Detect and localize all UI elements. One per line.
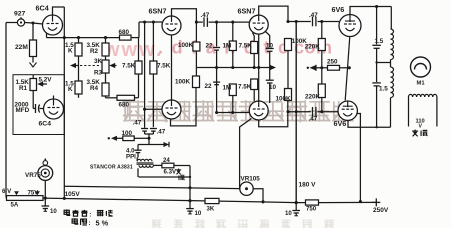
tube 6SN7 (second, lower triode) — [249, 101, 268, 120]
resistor R4 3.5K — [102, 73, 109, 98]
tube 6V6 (bottom) — [338, 101, 357, 120]
svg-text:1.5: 1.5 — [375, 38, 384, 45]
label 1.5K lower — [65, 81, 74, 94]
resistor R2 3.5K — [102, 38, 109, 56]
label 7.5K V3b — [238, 84, 252, 91]
label .47 to 6V6 top — [309, 12, 318, 19]
label 6C4 (V2) — [39, 121, 52, 128]
label 3K R3 — [94, 58, 103, 77]
resistor 100K (V3a plate) — [193, 42, 200, 76]
label 7.5K right — [157, 63, 171, 70]
wire: VR105 to bus2 — [253, 189, 264, 204]
bias network enclosure — [13, 75, 64, 135]
svg-text:www.: www. — [103, 39, 163, 61]
wire: mid row A — [196, 65, 276, 70]
tube 6V6 (top) — [339, 15, 361, 37]
svg-text:10: 10 — [50, 208, 57, 215]
svg-text:MFD: MFD — [16, 107, 30, 114]
label 6V + tap arrow — [2, 188, 19, 195]
label .47 fb left — [133, 120, 142, 127]
capacitor .47 (interstage 1) — [204, 17, 207, 27]
capacitor 1.5 (lower) — [372, 63, 381, 129]
svg-text:V: V — [419, 124, 423, 130]
label 100K lower right — [276, 96, 292, 103]
wire: V3 triodes interconnect — [257, 34, 260, 101]
label 1.5K upper — [65, 42, 74, 55]
svg-text:R2: R2 — [90, 48, 99, 55]
svg-text:220K: 220K — [305, 44, 321, 51]
label 6V6 top — [332, 5, 345, 14]
wire: network top rail — [47, 36, 120, 39]
svg-text:22: 22 — [205, 83, 213, 90]
tube 6SN7 (first, lower triode) — [162, 100, 181, 119]
label capacitors in MFD note — [64, 210, 112, 219]
wire: V3b cathode drop — [240, 119, 252, 189]
resistor 7.5K (V3a cathode) — [251, 33, 258, 68]
label 927 — [14, 11, 26, 18]
watermark: faint bottom ghost row — [152, 220, 334, 229]
svg-text:250: 250 — [327, 59, 338, 66]
svg-text:.47: .47 — [133, 120, 142, 127]
wire: CT tap — [375, 61, 390, 63]
watermark: gray company name row — [123, 101, 353, 122]
svg-text:6 V: 6 V — [2, 188, 12, 195]
label 22 upper — [206, 43, 214, 50]
svg-text:10: 10 — [195, 210, 202, 217]
speaker M1 — [411, 57, 431, 87]
svg-text:750: 750 — [306, 206, 317, 213]
label STANCOR A3831 — [90, 164, 133, 170]
label resistors 5% note — [72, 218, 109, 227]
label VR75 — [25, 172, 41, 179]
svg-text:R4: R4 — [90, 85, 99, 92]
ground (22M) — [30, 59, 37, 67]
transformer T1 STANCOR A3831 — [137, 153, 162, 177]
svg-text:927: 927 — [14, 11, 26, 18]
label 100K V3a plate — [178, 42, 194, 49]
resistor R3 3K (pot) — [102, 56, 117, 73]
label 220K lower — [305, 94, 321, 101]
wire: jack to grid — [6, 21, 43, 24]
capacitor 22 (upper) — [213, 22, 220, 112]
svg-text:7.5K: 7.5K — [239, 43, 253, 50]
svg-text:7.5K: 7.5K — [238, 84, 252, 91]
label 3.5K R2 — [87, 42, 101, 55]
watermark: red website text — [103, 38, 332, 62]
transformer T3 power 110V — [409, 94, 437, 126]
svg-text:.47: .47 — [201, 12, 210, 19]
label 680 lower — [119, 102, 130, 109]
label 6V6 bottom — [334, 119, 347, 128]
svg-text:R3: R3 — [94, 70, 103, 77]
svg-text:10: 10 — [269, 84, 277, 91]
resistor 250 — [328, 65, 350, 70]
svg-text:M1: M1 — [417, 81, 426, 87]
resistor 7.5K (first stage left) — [135, 38, 142, 98]
capacitor 10 (V3b cathode) — [266, 80, 274, 103]
tube 6C4 (V2) — [44, 96, 65, 120]
label 10 V3a — [266, 43, 274, 50]
label 3.5K R4 — [87, 79, 101, 92]
svg-text:PPI: PPI — [126, 154, 136, 161]
svg-text:220K: 220K — [305, 94, 321, 101]
wire: 6SN7b grid — [143, 108, 162, 111]
tube 6SN7 (first, upper triode) — [162, 16, 181, 35]
svg-text:5 %: 5 % — [96, 219, 109, 228]
label 250 — [327, 59, 338, 66]
resistor 100 — [123, 136, 149, 141]
label 75V + tap arrow — [28, 190, 40, 197]
label AC (6.3V) — [176, 169, 185, 181]
label 4.0 PPI — [126, 148, 136, 161]
label 100 — [122, 130, 133, 137]
label 6.3V — [164, 168, 177, 175]
svg-text:100K: 100K — [276, 96, 292, 103]
transformer T2 output primary — [391, 7, 394, 128]
svg-text:6SN7: 6SN7 — [149, 7, 167, 16]
wire: 6V6 top plate to rail — [350, 5, 391, 15]
svg-text:10: 10 — [285, 210, 292, 217]
wire: long vertical feedback line — [63, 7, 65, 198]
tube 6C4 (V1) — [43, 15, 63, 35]
wire: VR75 to bus — [44, 180, 46, 198]
svg-text:VR105: VR105 — [241, 176, 261, 183]
label VR105 — [241, 176, 261, 183]
wire: 6SN7b plate loop — [171, 88, 197, 126]
resistor 24 — [162, 163, 174, 168]
bus line 1 (105V) — [64, 186, 240, 188]
resistor 1M (lower) — [229, 84, 236, 113]
label 105V — [65, 191, 81, 198]
resistor 100K (V3b plate load) — [193, 76, 200, 88]
capacitor 4.0 — [135, 145, 142, 153]
resistor 22M — [30, 23, 37, 59]
svg-text:24: 24 — [163, 157, 170, 164]
label 7.5K V3a — [239, 43, 253, 50]
svg-text:22M: 22M — [15, 44, 28, 51]
label 22M — [15, 44, 28, 51]
label 1.5K R1 — [16, 79, 30, 92]
wire: 6C4 cathode down — [46, 33, 48, 38]
svg-text:1M: 1M — [223, 85, 232, 92]
wire: V3a plate jumper — [259, 6, 288, 21]
svg-text::: : — [89, 211, 91, 218]
regulator tube VR75 — [38, 158, 53, 180]
resistor 100K (lower right) — [285, 89, 292, 101]
svg-text:R1: R1 — [19, 85, 28, 92]
svg-text:100K: 100K — [175, 79, 191, 86]
svg-text:6SN7: 6SN7 — [238, 7, 256, 16]
svg-text:.47: .47 — [157, 129, 166, 136]
resistor 7.5K (first stage right) — [150, 22, 157, 127]
capacitor 10 (V3a cathode) — [266, 49, 274, 80]
label 110 V — [416, 119, 425, 130]
wire: 180V B+ vertical — [295, 22, 297, 203]
label 1M lower — [223, 85, 232, 92]
wire: to 6SN7 grid — [139, 20, 162, 37]
wire: fb caps join — [145, 134, 154, 140]
wiper 220K pair — [307, 65, 328, 71]
svg-text:6V6: 6V6 — [334, 119, 347, 128]
svg-text:.47: .47 — [309, 12, 318, 19]
svg-text:680: 680 — [119, 102, 130, 109]
tube 6SN7 (second, upper triode) — [249, 15, 268, 34]
resistor 100K (upper right) — [285, 39, 292, 89]
heater loop wire 6.3V — [139, 166, 192, 179]
wire+wiper to 100 ohm — [108, 136, 123, 141]
wire: 6V6 cathode link — [345, 37, 351, 101]
label 6SN7 first — [149, 7, 167, 16]
label 6C4 — [36, 4, 49, 13]
capacitor .47 (fb left) — [141, 22, 148, 134]
wire: node row — [138, 138, 169, 147]
regulator tube VR105 — [240, 182, 253, 195]
wire: 6C4 plate jumper to long vertical — [53, 7, 65, 15]
svg-text:7.5K: 7.5K — [122, 63, 136, 70]
label .47 interstage1 — [201, 12, 210, 19]
wire: heater riser — [188, 166, 191, 201]
svg-text:K: K — [68, 86, 73, 93]
wire: V3b plate loop — [259, 101, 288, 127]
svg-text:5.2V: 5.2V — [39, 77, 53, 84]
svg-text:7.5K: 7.5K — [157, 63, 171, 70]
resistor 5A (filament dropper) — [7, 196, 44, 209]
label 1.5 lower — [379, 86, 388, 93]
label 100K upper right — [292, 38, 308, 45]
svg-text:3K: 3K — [94, 58, 103, 65]
resistor 3K — [205, 198, 219, 212]
label 7.5K left — [122, 63, 136, 70]
label 22 lower — [205, 83, 213, 90]
wire: 6V6 bottom anode drop — [357, 114, 362, 204]
resistor 1.5K (lower) — [75, 81, 82, 98]
label +250V — [372, 198, 389, 214]
svg-text:6C4: 6C4 — [36, 4, 49, 13]
label 10 V3b — [269, 84, 277, 91]
svg-text:100K: 100K — [178, 42, 194, 49]
svg-text:6C4: 6C4 — [39, 121, 52, 128]
resistor 220K (upper) — [318, 22, 325, 85]
svg-text:105V: 105V — [65, 191, 81, 198]
svg-text:VR75: VR75 — [25, 172, 41, 179]
capacitor 2000 MFD — [33, 104, 43, 113]
wire: V3a cathode to bypass cap — [266, 32, 270, 48]
svg-text:250V: 250V — [373, 207, 389, 214]
svg-text:K: K — [68, 48, 73, 55]
resistor 680 (upper) — [120, 35, 140, 40]
label .47 fb right — [157, 129, 166, 136]
wire: bottom coupling row — [286, 110, 338, 113]
label 180 V — [299, 182, 317, 189]
capacitor .47 (fb right) — [150, 129, 157, 135]
resistor 1.5K (upper) — [75, 38, 82, 56]
label 6SN7 second — [238, 7, 256, 16]
svg-text::: : — [89, 220, 91, 227]
resistor R1 1.5K — [30, 75, 37, 109]
capacitor .47 (to 6V6 bottom) — [313, 107, 316, 117]
wire: interconnect 6SN7a-6SN7b — [171, 35, 173, 100]
label 5.2V with wiper — [37, 77, 52, 87]
label .47 to 6V6 bottom — [309, 116, 318, 123]
capacitor 1.5 (upper) — [372, 7, 381, 63]
svg-text:10: 10 — [266, 43, 274, 50]
svg-text:1.5: 1.5 — [379, 86, 388, 93]
resistor 7.5K (V3b) — [251, 79, 258, 101]
label 1.5 upper — [375, 38, 384, 45]
input jack 927 — [17, 17, 24, 26]
resistor 1M (upper) — [229, 22, 236, 67]
bus line 2 (ground/B-) — [6, 198, 376, 203]
svg-text:6V6: 6V6 — [332, 5, 345, 14]
label 680 upper — [119, 29, 130, 36]
svg-text:180 V: 180 V — [299, 182, 317, 189]
resistor 750 — [306, 200, 319, 213]
svg-text:100: 100 — [122, 130, 133, 137]
label 24 — [163, 157, 170, 164]
junction dots bus2 — [44, 197, 298, 205]
wire: top coupling row 2 — [286, 20, 339, 23]
wire: 6SN7a plate jumper — [172, 9, 198, 42]
capacitor 10 (left) — [42, 198, 58, 215]
svg-text:22: 22 — [206, 43, 214, 50]
svg-text:5A: 5A — [11, 202, 19, 209]
label 2000 MFD — [15, 102, 30, 115]
svg-text:1M: 1M — [223, 43, 232, 50]
capacitor 10 (right) — [285, 203, 300, 217]
label AC mains — [412, 130, 427, 137]
capacitor 10 (middle) — [186, 201, 202, 217]
capacitor .47 (to 6V6 top) — [313, 17, 316, 27]
svg-text:.47: .47 — [309, 116, 318, 123]
svg-text:680: 680 — [119, 29, 130, 36]
svg-text:3K: 3K — [207, 206, 215, 213]
wire: left rail — [5, 23, 7, 198]
resistor 680 (lower) — [106, 95, 139, 100]
label 220K upper — [305, 44, 321, 51]
wire: V3b grid row — [215, 111, 249, 114]
capacitor 22 (lower) — [213, 82, 220, 85]
resistor 220K (lower) — [318, 84, 325, 112]
potentiometer wiper (left pair) — [70, 56, 100, 81]
wire: coupling row top — [196, 21, 249, 24]
svg-text:STANCOR A3831: STANCOR A3831 — [90, 164, 133, 170]
label 1M upper — [223, 43, 232, 50]
svg-text:6.3V: 6.3V — [164, 168, 177, 175]
wire: 6V6 bottom cathode loop — [348, 120, 391, 127]
label 100K V3b plate — [175, 79, 191, 86]
